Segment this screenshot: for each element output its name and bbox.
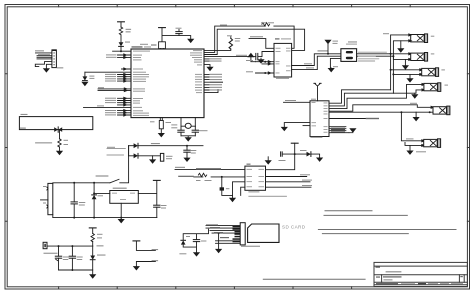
X1 right gray stubs: [359, 52, 387, 61]
regulator U5: [110, 188, 139, 204]
resistor R5: [58, 139, 61, 147]
ground net label stub B: [136, 262, 155, 267]
TVS diode D2: [84, 72, 86, 76]
U3 right pins to stereo bus: [292, 54, 394, 70]
trunk B extension to J5 bottom: [393, 90, 423, 93]
LED D1 + resistor R1 chain: [120, 23, 122, 52]
U3 interior pin text: [276, 48, 291, 74]
diode D7: [307, 152, 311, 157]
J4 ground: [409, 74, 411, 78]
U6 interior pin text: [247, 169, 265, 187]
U2 left long wire: [84, 106, 132, 108]
ground under C4: [260, 58, 262, 59]
SD card connector CN1: [240, 223, 245, 245]
audio jack J4: [422, 68, 439, 77]
J3 wires: [391, 54, 411, 66]
resistor R4: [229, 38, 232, 49]
supply rail with diode D7: [283, 154, 320, 157]
X1 ground hook: [330, 58, 341, 68]
stereo trunk vertical B: [393, 41, 410, 93]
ground tap: [152, 156, 154, 160]
crystal oval: [185, 123, 191, 128]
ground for divider: [229, 198, 236, 202]
J2 ground: [400, 41, 402, 49]
J6 ground: [415, 112, 417, 117]
LED D9: [92, 246, 94, 274]
decoupling flag C5: [327, 44, 329, 54]
audio jack J6: [433, 106, 450, 115]
power indicator: flag + resistor R7: [89, 227, 96, 229]
U2 right pin to resistor R4: [204, 37, 231, 51]
connector J1 top-left: [52, 49, 57, 67]
diode D8: [181, 240, 186, 244]
U2 left pin stubs group2: [118, 75, 132, 82]
protection diode D4: [93, 183, 95, 218]
title block text marks: [376, 267, 464, 285]
title block: [374, 262, 467, 286]
U6 supply circuit: power flag: [291, 142, 298, 144]
svg-text:SD CARD: SD CARD: [282, 224, 306, 229]
backup capacitor C8: [186, 146, 188, 158]
border zone ticks left: [5, 74, 7, 222]
staircase to trunk B: [329, 74, 421, 106]
audio jack J3: [411, 53, 428, 62]
U4 net label stub: [329, 118, 366, 120]
dual diode D3 on loop: [54, 127, 62, 132]
audio jack J5: [424, 83, 441, 92]
U5 ground pin: [120, 203, 122, 219]
staircase to jack J6 top: [329, 105, 433, 111]
border zone ticks right: [467, 74, 469, 222]
U4 power flag: [314, 83, 321, 101]
U2 right pin wire to codec input cap: [204, 52, 274, 57]
stereo trunk vertical A: [391, 35, 411, 90]
U2 interior pin-name text (left column): [133, 51, 150, 116]
series resistor R3 on bus: [262, 23, 270, 26]
notes rule lines: [263, 211, 456, 280]
PSU ground: [118, 219, 125, 223]
codec U3: [274, 38, 292, 79]
main MCU U2: [131, 46, 204, 117]
coin cell BT2: [160, 153, 163, 161]
SD card body: [248, 224, 279, 242]
input capacitor C6: [73, 183, 75, 218]
U6 top ground: [267, 157, 269, 160]
U3 left net-label wire: [249, 39, 274, 49]
junction: [120, 50, 122, 52]
audio jack J2: [411, 34, 428, 43]
U6 right net stubs: [266, 177, 312, 188]
J1 ground: [43, 68, 50, 72]
LED D1: [119, 42, 124, 46]
load capacitor C2: [178, 130, 184, 132]
U6 pin4 L-wire: [241, 187, 245, 195]
U2 right: nested bus wires to codec: [204, 26, 305, 54]
border zone ticks top: [59, 5, 411, 7]
long wire to jack J6 sleeve: [329, 111, 433, 113]
input element C9: [281, 152, 283, 156]
SD card pin pads: [233, 226, 241, 243]
PSU top rail with switch SW1: [53, 146, 129, 184]
cap C11: [193, 240, 199, 242]
resistor R1: [119, 27, 122, 35]
U4 left stub: [303, 125, 310, 127]
resistor R6: [198, 173, 206, 176]
ground under R5: [56, 151, 63, 155]
net stubs left of D5 row: [107, 149, 125, 156]
vertical to jack J7: [401, 112, 422, 145]
U4 bottom bundle to ground: [329, 127, 353, 133]
PSU bottom rail: [53, 215, 157, 218]
U2 left double wires: [98, 89, 131, 91]
cap C10 on divider: [221, 176, 223, 178]
battery loop BT1: [19, 117, 92, 130]
output capacitor C7: [154, 205, 160, 207]
U2 top supply wire: [162, 28, 191, 42]
J7 ground: [409, 145, 411, 150]
U2 left pin stubs group1: [118, 55, 132, 69]
U6 left wire with resistor R6: [194, 176, 245, 178]
ground for C1: [187, 39, 194, 43]
U2 left pin stubs group3: [118, 98, 132, 105]
U2 left pin stubs group4: [118, 111, 132, 115]
coupling capacitor C4: [256, 53, 258, 59]
power input connector J8: [41, 183, 53, 214]
ground for bundle: [349, 128, 356, 132]
capacitor C1 on top wire: [178, 29, 180, 35]
U2 left pins: wire to LED junction: [113, 50, 131, 52]
U2 right label stubs: [204, 59, 218, 93]
oscillator X1: [341, 41, 357, 61]
U5 output wire: [138, 181, 157, 218]
ground below crystal: [185, 137, 192, 141]
J5 ground: [414, 93, 416, 94]
U2 interior pin-name text (right column): [190, 50, 202, 93]
U2 bottom resistor R2 (box style): [160, 118, 162, 133]
crystal Y1 below U2: [181, 118, 195, 138]
backup branch diodes D5 D6: [129, 146, 203, 156]
border zone ticks bottom: [59, 287, 352, 289]
small ground on pin: [206, 67, 213, 71]
J1 wires: [35, 53, 52, 68]
power net label stub A: [133, 240, 140, 242]
load capacitor C3: [192, 130, 198, 132]
small ground flag: [247, 53, 254, 57]
test terminal TP1: [43, 242, 47, 248]
diode D5: [134, 143, 138, 148]
SD card supply: diode D8 cap C11: [183, 229, 208, 252]
cap C13: [71, 246, 73, 270]
RTC U6: [245, 164, 287, 197]
J3 ground: [402, 65, 409, 69]
wire from TVS to U2: [85, 71, 131, 73]
U4 right staircase to trunk A: [329, 70, 421, 103]
U3 left pin wires with junction dots: [251, 57, 274, 73]
staircase to jack J5 top: [329, 84, 424, 108]
power flag VCC2: [159, 27, 166, 29]
wire below loop: [59, 130, 61, 151]
filter FB1 above U2: [159, 42, 166, 49]
indicator ground: [89, 274, 96, 278]
SD card bus wires: [206, 226, 240, 249]
power flag 3V3: [153, 179, 160, 181]
amplifier U4: [310, 99, 329, 138]
indicator bottom rail: [59, 269, 93, 271]
U4 left pin to ground: [284, 123, 310, 127]
audio jack J7: [424, 139, 441, 148]
U4 left input wire: [284, 101, 311, 103]
diode D6: [134, 153, 138, 158]
U4 interior pin text: [312, 102, 328, 133]
U6 pin3 L-wire: [233, 182, 245, 196]
U5 input wire: [94, 192, 110, 194]
power flag VCC1: [118, 21, 125, 23]
U6 left long wire: [175, 168, 245, 170]
indicator rail: [47, 245, 93, 247]
cap C12: [58, 246, 60, 270]
J1 wire label smudges: [35, 50, 63, 68]
